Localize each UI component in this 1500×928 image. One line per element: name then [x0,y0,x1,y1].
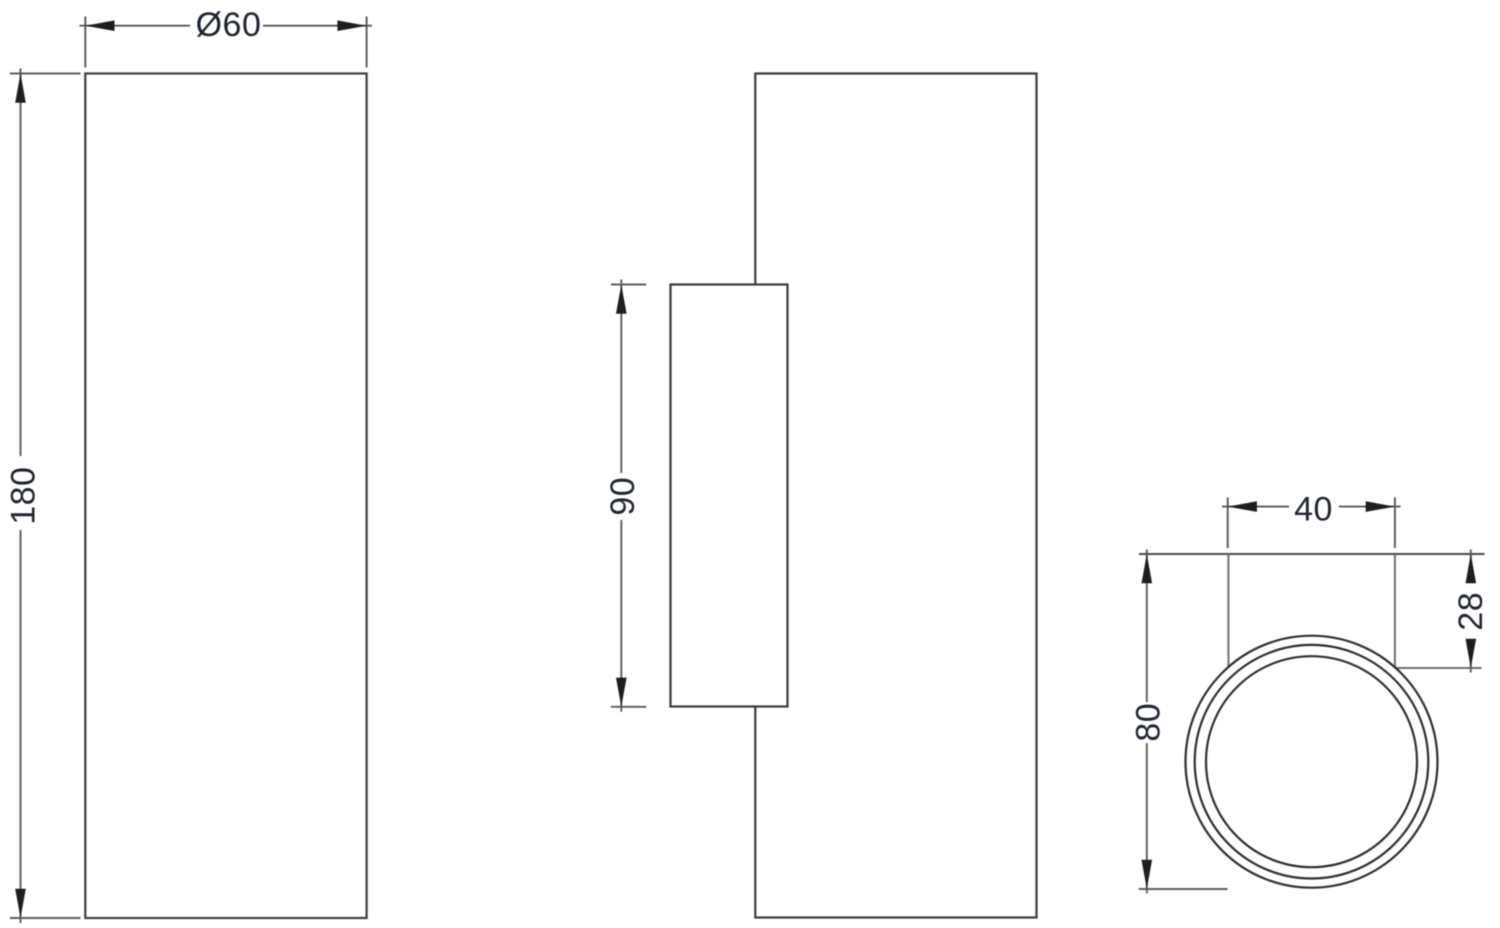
svg-text:Ø60: Ø60 [196,6,262,44]
svg-text:28: 28 [1452,592,1490,631]
svg-text:40: 40 [1294,490,1333,528]
svg-text:180: 180 [4,467,42,525]
svg-text:80: 80 [1130,703,1168,742]
svg-text:90: 90 [604,477,642,516]
